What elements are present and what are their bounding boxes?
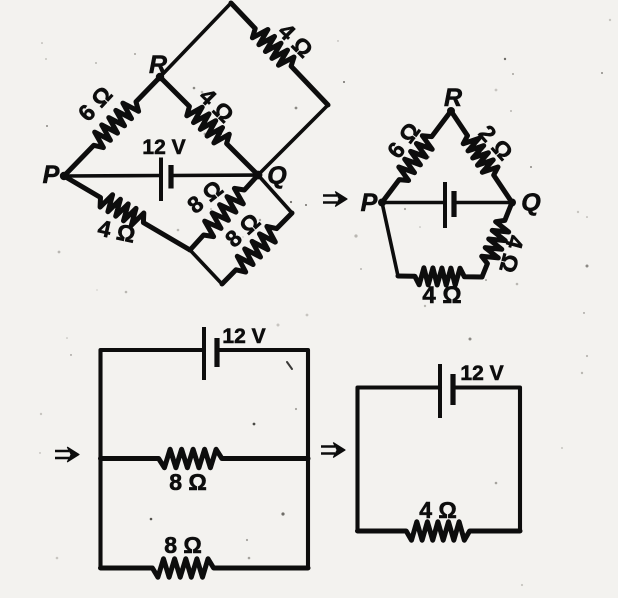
svg-text:4 Ω: 4 Ω — [419, 497, 457, 523]
resistor 4ohm P to bottom node (circuit 1) — [64, 176, 190, 250]
svg-text:Q: Q — [267, 162, 287, 190]
wire top-right corner to Q — [258, 105, 328, 175]
resistor 4ohm top outer branch T-U (circuit 1) — [231, 3, 328, 105]
implication arrow 3 — [321, 443, 345, 457]
wire R to top corner — [160, 3, 231, 77]
implication arrow 2 — [55, 447, 79, 461]
svg-text:12 V: 12 V — [142, 136, 185, 159]
resistor 6ohm P-R (circuit 1) — [64, 77, 160, 176]
svg-text:12 V: 12 V — [460, 362, 503, 385]
svg-text:P: P — [43, 161, 60, 189]
svg-text:P: P — [361, 189, 378, 217]
wire left edge middle to bottom (circuit 3) — [98, 459, 102, 569]
node P (circuit 2) — [378, 199, 386, 207]
resistor 4ohm bottom branch (circuit 4) — [358, 522, 521, 540]
node Q (circuit 2) — [508, 199, 516, 207]
resistor 4ohm bottom E-D (circuit 2) — [398, 268, 482, 285]
svg-text:8 Ω: 8 Ω — [169, 469, 207, 495]
resistor 2ohm R-Q (circuit 2) — [451, 111, 512, 203]
node R (circuit 1) — [156, 73, 164, 81]
wire bottom corner B to node A — [190, 250, 222, 284]
resistor 8ohm first parallel branch A-Q (circuit 1) — [190, 175, 258, 250]
wire battery to top-right edge (circuit 4) — [453, 388, 520, 532]
battery 12V (circuit 4) — [440, 364, 453, 418]
wire P down to bottom-left corner (circuit 2) — [382, 203, 398, 277]
resistor 8ohm middle branch (circuit 3) — [101, 449, 309, 467]
svg-text:Q: Q — [521, 189, 541, 217]
wire battery to top-right edge (circuit 3) — [217, 350, 308, 459]
node Q (circuit 1) — [254, 171, 263, 180]
resistor 4ohm Q to bottom-right corner (circuit 2) — [482, 203, 512, 278]
node P (circuit 1) — [60, 172, 68, 180]
battery 12V (circuit 3) — [204, 327, 217, 380]
wire top-left edge to battery (circuit 3) — [101, 350, 205, 459]
svg-text:R: R — [149, 51, 167, 79]
wire left+top edge to battery (circuit 4) — [358, 388, 441, 532]
resistor 8ohm second parallel branch C-B (circuit 1) — [222, 213, 292, 284]
svg-text:8 Ω: 8 Ω — [164, 532, 202, 558]
battery (circuit 2) — [445, 182, 454, 228]
wire battery to Q — [171, 173, 258, 177]
wire P to battery (circuit 2) — [382, 201, 445, 205]
implication arrow 1 — [323, 192, 347, 206]
svg-text:12 V: 12 V — [222, 325, 265, 348]
wire P to battery — [64, 174, 161, 178]
resistor 8ohm bottom branch (circuit 3) — [101, 559, 309, 577]
svg-text:4 Ω: 4 Ω — [422, 282, 461, 309]
svg-text:R: R — [444, 84, 462, 112]
wire Q to right corner C — [258, 175, 292, 213]
resistor 4ohm middle branch R-Q (circuit 1) — [160, 77, 258, 175]
resistor 6ohm P-R (circuit 2) — [382, 111, 451, 203]
node R (circuit 2) — [447, 107, 455, 115]
battery 12V (circuit 1) — [161, 158, 171, 202]
wire battery to Q (circuit 2) — [454, 201, 512, 205]
wire right edge middle to bottom (circuit 3) — [306, 459, 310, 569]
